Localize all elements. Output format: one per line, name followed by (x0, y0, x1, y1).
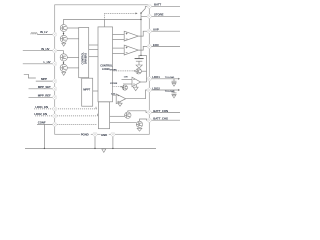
svg-text:TO LOAD: TO LOAD (165, 90, 175, 93)
svg-text:LDO2_EN: LDO2_EN (34, 112, 47, 116)
svg-text:UVP: UVP (153, 28, 159, 32)
svg-text:BATT_CHG: BATT_CHG (153, 117, 169, 121)
svg-text:LDO1_EN: LDO1_EN (35, 105, 48, 109)
svg-text:DRIVERS: DRIVERS (84, 53, 88, 64)
svg-text:STORE: STORE (154, 13, 164, 17)
svg-text:LDO1: LDO1 (152, 75, 160, 79)
svg-text:IN_LV: IN_LV (40, 30, 48, 34)
svg-text:MPPT: MPPT (83, 88, 90, 92)
svg-text:BATT_CON: BATT_CON (153, 109, 168, 113)
svg-text:MPP_REF: MPP_REF (38, 93, 51, 97)
svg-text:3.3V: 3.3V (111, 93, 116, 95)
svg-text:STORE: STORE (110, 70, 118, 72)
svg-text:TO LOAD: TO LOAD (165, 76, 175, 79)
svg-text:CONTROL: CONTROL (100, 64, 113, 68)
svg-text:GND: GND (101, 133, 107, 137)
svg-text:STORE: STORE (110, 83, 118, 85)
svg-text:EOC: EOC (153, 43, 160, 47)
svg-text:L_HV: L_HV (44, 60, 51, 64)
svg-text:MPP_SET: MPP_SET (38, 85, 51, 89)
svg-text:IN_HV: IN_HV (41, 47, 49, 51)
svg-text:1.8V: 1.8V (124, 77, 129, 79)
svg-text:BATT: BATT (154, 3, 161, 7)
svg-text:LDO2: LDO2 (152, 86, 160, 90)
svg-text:PGND: PGND (81, 133, 89, 137)
svg-text:MPP: MPP (41, 77, 47, 81)
svg-text:CONF: CONF (38, 121, 46, 125)
svg-text:LOGIC: LOGIC (102, 67, 110, 71)
